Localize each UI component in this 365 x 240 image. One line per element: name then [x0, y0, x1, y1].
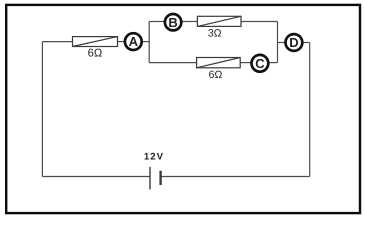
svg-text:3Ω: 3Ω: [208, 28, 222, 40]
svg-text:B: B: [168, 15, 177, 30]
svg-text:D: D: [289, 35, 298, 50]
svg-text:12V: 12V: [144, 151, 164, 162]
svg-text:A: A: [129, 34, 139, 49]
svg-text:C: C: [255, 56, 265, 71]
svg-text:6Ω: 6Ω: [88, 47, 103, 59]
svg-text:6Ω: 6Ω: [209, 69, 223, 81]
